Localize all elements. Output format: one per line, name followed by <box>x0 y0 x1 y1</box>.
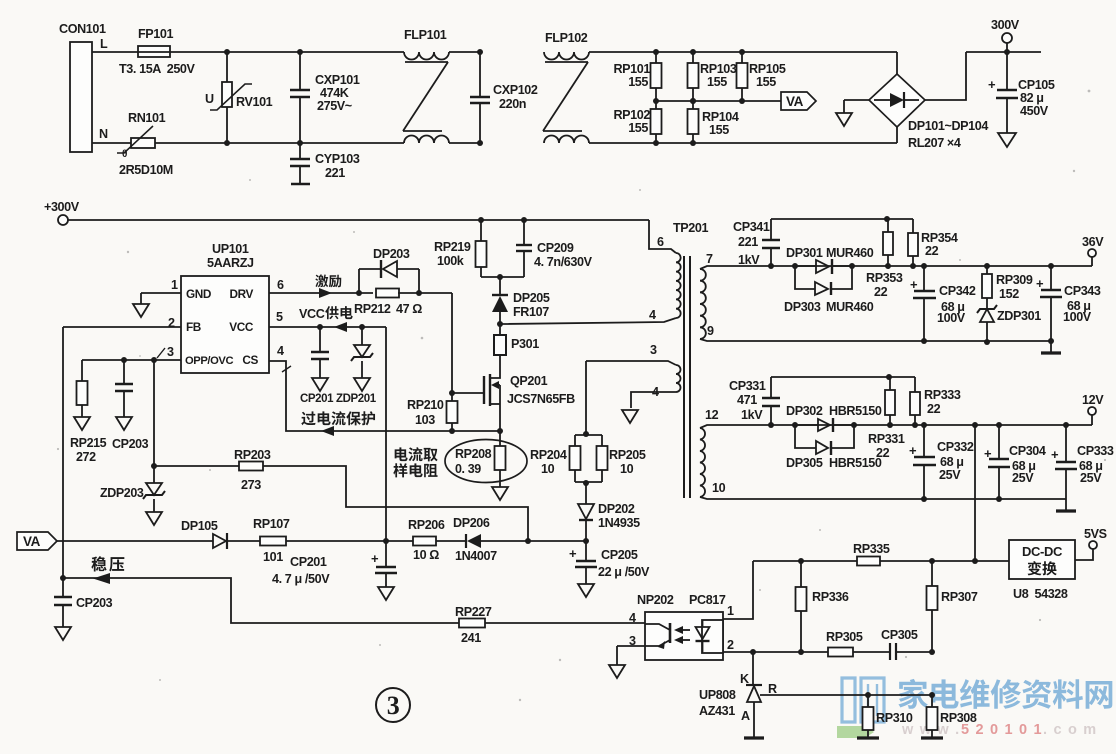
wire reference line <box>760 694 932 696</box>
svg-text:AZ431: AZ431 <box>699 704 735 718</box>
svg-text:68 μ: 68 μ <box>940 455 964 469</box>
svg-text:4. 7n/630V: 4. 7n/630V <box>534 255 593 269</box>
wire to RP203 <box>154 465 239 467</box>
svg-text:U8 54328: U8 54328 <box>1013 587 1068 601</box>
wire gate <box>452 392 484 394</box>
ground at RP215 <box>74 417 90 430</box>
ground at bridge <box>844 99 869 101</box>
wire VCC feed down <box>385 327 387 541</box>
chassis ground 36V <box>1050 341 1052 353</box>
svg-text:2R5D10M: 2R5D10M <box>119 163 173 177</box>
svg-text:DP302: DP302 <box>786 404 823 418</box>
capacitor CP341 <box>768 263 774 269</box>
svg-text:RP353: RP353 <box>866 271 903 285</box>
wire CS to source node <box>452 430 500 432</box>
svg-text:RP310: RP310 <box>876 711 913 725</box>
secondary winding 7-9 <box>700 269 706 339</box>
wire snubber top 36V <box>771 218 913 220</box>
wire VA line <box>57 540 213 542</box>
resistor RP204 <box>575 434 602 436</box>
svg-text:155: 155 <box>628 121 648 135</box>
svg-text:CP205: CP205 <box>601 548 638 562</box>
svg-text:RV101: RV101 <box>236 95 273 109</box>
svg-text:CP333: CP333 <box>1077 444 1114 458</box>
svg-text:RP335: RP335 <box>853 542 890 556</box>
node FB junction <box>60 575 66 581</box>
svg-text:RP107: RP107 <box>253 517 290 531</box>
wire into bridge top <box>896 52 898 74</box>
svg-text:RL207 ×4: RL207 ×4 <box>908 136 961 150</box>
svg-text:+300V: +300V <box>44 200 80 214</box>
svg-text:CXP102: CXP102 <box>493 83 538 97</box>
svg-text:VA: VA <box>23 534 41 549</box>
svg-text:6: 6 <box>277 278 284 292</box>
svg-text:DP203: DP203 <box>373 247 410 261</box>
diode DP202 <box>583 480 589 486</box>
resistor RP203 <box>239 462 263 471</box>
svg-text:CP105: CP105 <box>1018 78 1055 92</box>
wire aux to RP204 RP205 <box>585 361 587 434</box>
svg-text:3: 3 <box>650 343 657 357</box>
wire bridge to 300V rail <box>925 52 966 100</box>
wire snubber join <box>481 276 524 278</box>
svg-text:θ: θ <box>122 149 127 160</box>
sense resistor RP208 circled <box>445 440 527 483</box>
connector CON101 <box>70 42 92 152</box>
capacitor CP209 <box>521 217 527 223</box>
ground at CP201 <box>312 378 328 391</box>
svg-text:DP206: DP206 <box>453 516 490 530</box>
svg-text:ZDP203: ZDP203 <box>100 486 144 500</box>
resistor RP353 <box>887 219 889 232</box>
svg-text:TP201: TP201 <box>673 221 709 235</box>
aux winding 3-4 <box>676 365 681 392</box>
wire OPP/OVC pin 3 <box>82 359 181 361</box>
svg-text:241: 241 <box>461 631 481 645</box>
svg-text:RP336: RP336 <box>812 590 849 604</box>
svg-text:4: 4 <box>277 344 284 358</box>
svg-text:474K: 474K <box>320 86 349 100</box>
svg-text:450V: 450V <box>1020 104 1049 118</box>
svg-text:CXP101: CXP101 <box>315 73 360 87</box>
ground at RP208 <box>492 487 508 500</box>
svg-text:CON101: CON101 <box>59 22 106 36</box>
resistor RP219 <box>478 217 484 223</box>
svg-text:10: 10 <box>712 481 726 495</box>
watermark logo <box>842 678 884 722</box>
resistor RP305 <box>828 648 853 657</box>
svg-text:NP202: NP202 <box>637 593 674 607</box>
svg-text:4: 4 <box>629 611 636 625</box>
svg-text:12V: 12V <box>1082 393 1104 407</box>
svg-text:36V: 36V <box>1082 235 1104 249</box>
resistor RP212 <box>376 289 399 298</box>
capacitor CP331 <box>768 422 774 428</box>
ground at CP203 upper <box>116 417 132 430</box>
zener ZDP203 <box>146 483 162 495</box>
svg-text:ZDP201: ZDP201 <box>336 393 377 405</box>
terminal 36V <box>1088 249 1096 257</box>
svg-text:RP308: RP308 <box>940 711 977 725</box>
svg-text:155: 155 <box>628 75 648 89</box>
diode DP203 <box>356 290 362 296</box>
wire 36V ground rail <box>700 339 1051 341</box>
svg-text:RP227: RP227 <box>455 605 492 619</box>
wire 12V rail <box>700 425 1092 428</box>
terminal 5VS <box>1075 549 1093 560</box>
wire bottom rail to bridge <box>656 142 897 144</box>
svg-text:CP201: CP201 <box>300 393 334 405</box>
resistor RP206 <box>413 537 436 546</box>
svg-text:RP305: RP305 <box>826 630 863 644</box>
fusible resistor P301 <box>499 324 501 335</box>
svg-text:FLP102: FLP102 <box>545 31 588 45</box>
svg-text:1N4935: 1N4935 <box>598 516 640 530</box>
svg-text:MUR460: MUR460 <box>826 300 874 314</box>
svg-text:+: + <box>910 277 918 292</box>
svg-text:5: 5 <box>276 310 283 324</box>
capacitor CP343 <box>1048 263 1054 269</box>
diode DP302 <box>792 422 798 428</box>
wire 12V ground rail <box>700 497 1066 499</box>
svg-text:273: 273 <box>241 478 261 492</box>
svg-text:272: 272 <box>76 450 96 464</box>
svg-text:R: R <box>768 682 777 696</box>
wire feedback line <box>63 578 459 623</box>
svg-text:RP331: RP331 <box>868 432 905 446</box>
wire pin3 to ZDP203 <box>153 360 155 483</box>
svg-text:7: 7 <box>706 252 713 266</box>
resistor RP354 <box>912 219 914 233</box>
svg-text:100V: 100V <box>937 311 966 325</box>
transformer core <box>683 256 685 498</box>
optocoupler NP202 box <box>645 612 723 660</box>
svg-text:CP342: CP342 <box>939 284 976 298</box>
wire rail into pin 6 <box>649 220 676 253</box>
opto LED <box>702 620 704 627</box>
resistor RP310 <box>867 695 869 707</box>
svg-text:RP204: RP204 <box>530 448 567 462</box>
svg-text:82 μ: 82 μ <box>1020 91 1044 105</box>
wire 36V rail <box>700 266 1092 269</box>
capacitor CP105 <box>1006 52 1008 90</box>
svg-text:1: 1 <box>171 278 178 292</box>
node DP206 junction <box>525 538 531 544</box>
capacitor CP305 <box>889 643 891 660</box>
svg-text:HBR5150: HBR5150 <box>829 456 882 470</box>
svg-text:47 Ω: 47 Ω <box>396 302 422 316</box>
svg-text:FP101: FP101 <box>138 27 174 41</box>
svg-text:155: 155 <box>709 123 729 137</box>
primary winding 6-4 <box>676 253 681 318</box>
resistor RP103 <box>690 49 696 55</box>
capacitor CP205 <box>585 541 587 561</box>
svg-text:CP201: CP201 <box>290 555 327 569</box>
resistor RP336 <box>800 561 802 587</box>
svg-text:DP105: DP105 <box>181 519 218 533</box>
svg-text:DC-DC: DC-DC <box>1022 544 1063 559</box>
svg-text:DP303: DP303 <box>784 300 821 314</box>
svg-text:DP301: DP301 <box>786 246 823 260</box>
capacitor CYP103 <box>299 143 301 159</box>
resistor RP308 <box>931 695 933 707</box>
page number 3 <box>376 688 410 722</box>
svg-text:10 Ω: 10 Ω <box>413 548 439 562</box>
svg-text:25V: 25V <box>1080 471 1102 485</box>
svg-text:MUR460: MUR460 <box>826 246 874 260</box>
svg-text:+: + <box>1051 447 1059 462</box>
svg-text:RP212: RP212 <box>354 302 391 316</box>
svg-text:FR107: FR107 <box>513 305 549 319</box>
diode DP206 <box>436 540 466 542</box>
svg-text:10: 10 <box>620 462 634 476</box>
ground at RP308 <box>921 736 943 739</box>
svg-text:4. 7 μ /50V: 4. 7 μ /50V <box>272 572 330 586</box>
aux winding return <box>631 392 676 408</box>
ground at ZDP201 <box>354 378 370 391</box>
svg-text:RP102: RP102 <box>613 108 650 122</box>
svg-text:471: 471 <box>737 393 757 407</box>
diode DP301 <box>792 263 798 269</box>
svg-text:DP205: DP205 <box>513 291 550 305</box>
resistor RP307 <box>931 561 933 586</box>
svg-text:22 μ /50V: 22 μ /50V <box>598 565 650 579</box>
svg-text:HBR5150: HBR5150 <box>829 404 882 418</box>
thermistor RN101 <box>131 138 155 148</box>
svg-text:10: 10 <box>541 462 555 476</box>
capacitor CXP101 <box>297 49 303 55</box>
svg-text:DP101~DP104: DP101~DP104 <box>908 119 988 133</box>
capacitor CP201 at VCC <box>319 327 321 352</box>
svg-text:100V: 100V <box>1063 310 1092 324</box>
CS arrow <box>321 426 334 436</box>
svg-text:1kV: 1kV <box>741 408 763 422</box>
svg-text:RP205: RP205 <box>609 448 646 462</box>
node RP203 junction <box>151 463 157 469</box>
svg-text:275V~: 275V~ <box>317 99 352 113</box>
svg-text:+: + <box>909 443 917 458</box>
wire snubber top 12V <box>771 376 915 378</box>
label overcurrent protection <box>301 411 315 425</box>
svg-text:T3. 15A 250V: T3. 15A 250V <box>119 62 196 76</box>
wire pin 1 up <box>723 561 753 619</box>
capacitor CP332 <box>921 422 927 428</box>
svg-text:101: 101 <box>263 550 283 564</box>
opto phototransistor <box>669 623 672 643</box>
wire N to FLP101 <box>155 142 404 144</box>
svg-text:VCC: VCC <box>299 307 325 321</box>
svg-text:RP307: RP307 <box>941 590 978 604</box>
svg-text:22: 22 <box>874 285 888 299</box>
node RP353 bottom <box>885 263 891 269</box>
svg-text:3: 3 <box>167 345 174 359</box>
terminal 300V <box>1004 49 1010 55</box>
wire VCC pin 5 <box>269 326 386 328</box>
chassis ground 12V <box>1065 499 1067 511</box>
svg-text:RN101: RN101 <box>128 111 166 125</box>
svg-text:1N4007: 1N4007 <box>455 549 497 563</box>
ground at RP310 <box>857 736 879 739</box>
svg-text:RP208: RP208 <box>455 447 492 461</box>
svg-text:152: 152 <box>999 287 1019 301</box>
wire DRV pin 6 <box>269 292 373 294</box>
ground at CP201 lower <box>378 587 394 600</box>
svg-text:300V: 300V <box>991 18 1020 32</box>
opto light arrows <box>678 629 690 631</box>
wire +300V rail <box>68 219 649 221</box>
svg-text:3: 3 <box>387 691 400 720</box>
svg-text:A: A <box>741 709 750 723</box>
svg-text:+: + <box>1036 276 1044 291</box>
svg-text:P301: P301 <box>511 337 539 351</box>
label ji-li drive <box>315 275 328 288</box>
wire CS pin 4 <box>269 361 452 431</box>
wire top rail to bridge <box>656 51 897 53</box>
MOSFET QP201 <box>483 376 485 404</box>
svg-text:221: 221 <box>325 166 345 180</box>
wire DRV to gate <box>398 292 452 294</box>
drive arrow <box>319 288 332 298</box>
svg-text:+: + <box>569 546 577 561</box>
svg-text:CP331: CP331 <box>729 379 766 393</box>
zener ZDP301 <box>980 309 994 322</box>
wire RP335 line <box>753 560 1009 562</box>
watermark text jia dian wei xiu zi liao wang <box>898 679 927 709</box>
wire RP203 jog to VA line <box>263 466 528 541</box>
label wen-ya regulation <box>91 556 106 571</box>
svg-text:UP101: UP101 <box>212 242 249 256</box>
resistor RP331 <box>889 377 891 390</box>
svg-text:25V: 25V <box>939 468 961 482</box>
ground at CP203 lower <box>55 627 71 640</box>
svg-text:6: 6 <box>657 235 664 249</box>
svg-text:0. 39: 0. 39 <box>455 462 481 476</box>
resistor RP105 <box>739 49 745 55</box>
svg-text:JCS7N65FB: JCS7N65FB <box>507 392 575 406</box>
diode DP305 parallel <box>795 425 816 448</box>
svg-text:PC817: PC817 <box>689 593 726 607</box>
svg-text:CP209: CP209 <box>537 241 574 255</box>
resistor RP205 <box>601 435 603 446</box>
resistor RP333 <box>914 377 916 392</box>
DC-DC converter U8 <box>1009 540 1075 579</box>
svg-text:22: 22 <box>925 244 939 258</box>
svg-text:+: + <box>988 77 996 92</box>
shunt regulator UP808 <box>752 652 754 684</box>
svg-text:12: 12 <box>705 408 719 422</box>
svg-text:25V: 25V <box>1012 471 1034 485</box>
diode DP303 parallel <box>795 266 815 289</box>
VCC arrow <box>334 322 347 332</box>
svg-text:CP305: CP305 <box>881 628 918 642</box>
svg-text:OPP/OVC: OPP/OVC <box>185 355 233 367</box>
svg-text:RP203: RP203 <box>234 448 271 462</box>
svg-text:RP101: RP101 <box>613 62 650 76</box>
svg-text:155: 155 <box>707 75 727 89</box>
ground at pin 3 <box>609 665 625 678</box>
ground at UP808 <box>744 736 764 739</box>
svg-text:RP309: RP309 <box>996 273 1033 287</box>
svg-text:DP305: DP305 <box>786 456 823 470</box>
svg-text:22: 22 <box>927 402 941 416</box>
varistor RV101 <box>224 49 230 55</box>
svg-text:CP332: CP332 <box>937 440 974 454</box>
svg-text:RP103: RP103 <box>700 62 737 76</box>
ground at ZDP203 <box>146 512 162 525</box>
svg-text:CP343: CP343 <box>1064 284 1101 298</box>
wire GND pin 1 <box>141 292 181 294</box>
svg-text:4: 4 <box>649 308 656 322</box>
terminal 12V <box>1088 407 1096 415</box>
zener ZDP201 <box>361 327 363 345</box>
net tag VA top <box>781 92 816 110</box>
resistor RP101 <box>653 49 659 55</box>
resistor RP215 <box>81 360 83 381</box>
wire L from CON101 to fuse <box>92 51 138 53</box>
svg-text:CYP103: CYP103 <box>315 152 360 166</box>
svg-text:RP105: RP105 <box>749 62 786 76</box>
choke FLP101 <box>404 52 449 60</box>
svg-text:RP215: RP215 <box>70 436 107 450</box>
node CP201 junction <box>383 538 389 544</box>
resistor RP107 <box>226 540 260 542</box>
svg-text:FLP101: FLP101 <box>404 28 447 42</box>
svg-text:VCC: VCC <box>229 320 254 334</box>
wire into bridge bottom <box>896 127 898 143</box>
resistor RP102 <box>653 98 659 104</box>
node drain junction <box>497 321 503 327</box>
ground at aux winding <box>622 410 638 423</box>
svg-text:CS: CS <box>242 353 258 367</box>
wire pin 3 to ground <box>617 645 645 647</box>
svg-text:. c o m: . c o m <box>1043 722 1097 738</box>
svg-text:DRV: DRV <box>230 287 254 301</box>
capacitor CP203 upper <box>123 360 125 384</box>
wire middle node <box>656 100 781 102</box>
svg-text:220n: 220n <box>499 97 526 111</box>
svg-text:221: 221 <box>738 235 758 249</box>
svg-text:5VS: 5VS <box>1084 527 1107 541</box>
svg-text:RP219: RP219 <box>434 240 471 254</box>
ground at pin 1 <box>133 304 149 317</box>
capacitor CP203 lower <box>62 578 64 597</box>
svg-text:L: L <box>100 37 108 51</box>
resistor RP104 <box>690 98 696 104</box>
wire to CP205 node <box>528 540 586 542</box>
secondary winding 12-10 <box>700 428 705 497</box>
svg-text:9: 9 <box>707 324 714 338</box>
svg-text:UP808: UP808 <box>699 688 736 702</box>
fuse FP101 <box>138 46 170 57</box>
svg-text:RP210: RP210 <box>407 398 444 412</box>
svg-text:CP203: CP203 <box>76 596 113 610</box>
svg-text:103: 103 <box>415 413 435 427</box>
svg-text:DP202: DP202 <box>598 502 635 516</box>
svg-text:100k: 100k <box>437 254 465 268</box>
diode DP205 <box>499 277 501 295</box>
svg-text:CP304: CP304 <box>1009 444 1046 458</box>
wire L fuse to FLP101 <box>170 51 404 53</box>
choke FLP102 <box>544 52 589 60</box>
svg-text:CP341: CP341 <box>733 220 770 234</box>
svg-text:GND: GND <box>186 287 212 301</box>
svg-text:1: 1 <box>727 604 734 618</box>
diode DP105 <box>213 534 226 548</box>
svg-text:5AARZJ: 5AARZJ <box>207 256 254 270</box>
svg-text:ZDP301: ZDP301 <box>997 309 1041 323</box>
wire pin 2 line <box>723 651 828 653</box>
node RP331 bottom <box>887 422 893 428</box>
